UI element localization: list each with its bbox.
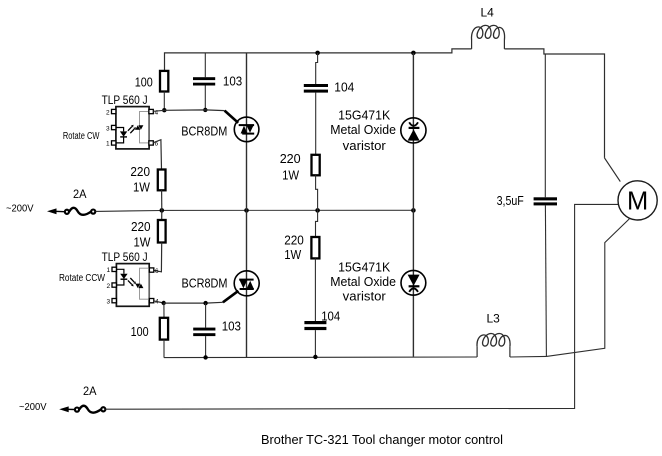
wire mid rail to lower 220 <box>161 210 163 220</box>
motor M1 <box>618 181 657 220</box>
LED inside U2 <box>116 269 124 273</box>
svg-text:TLP 560 J: TLP 560 J <box>102 95 148 107</box>
light arrows inside U2 <box>128 280 132 284</box>
svg-text:3: 3 <box>106 125 110 132</box>
svg-text:2A: 2A <box>73 189 87 201</box>
wire 220 to mid rail <box>161 190 163 210</box>
wire diagonal L3 to motor bottom vertical <box>547 219 630 357</box>
wire bottom component rail <box>164 356 477 359</box>
wire 3,5uF column lower <box>545 205 546 356</box>
capacitor 104 (upper) <box>304 84 328 93</box>
inductor L3 <box>477 334 510 357</box>
svg-text:220: 220 <box>130 164 150 179</box>
pin 6 (U1) <box>149 141 153 145</box>
svg-text:L3: L3 <box>487 312 501 326</box>
svg-text:1W: 1W <box>134 235 152 250</box>
wire 3,5uF column upper <box>544 54 546 197</box>
wire 104 to 220 (upper middle) <box>315 93 317 155</box>
wire U1 pin6 to resistor 220 <box>153 140 161 170</box>
svg-text:Rotate CCW: Rotate CCW <box>59 273 105 284</box>
pin 1 (U2) <box>112 267 116 271</box>
capacitor 103 (upper) <box>193 53 215 110</box>
light arrows inside U1 <box>128 127 132 131</box>
wire gate diagonal to triac Q1 <box>225 111 239 123</box>
wire mid rail <box>162 209 414 211</box>
capacitor 3,5uF <box>534 197 557 205</box>
svg-text:103: 103 <box>223 73 242 88</box>
wire 220 to U2 pin6 <box>153 243 161 272</box>
junction bottom rail x=315.4 <box>313 355 317 359</box>
svg-text:M: M <box>627 187 648 215</box>
svg-text:103: 103 <box>222 319 241 334</box>
wire 104 column upper (top jog) <box>316 53 318 84</box>
wire lower ~200V rail to motor-left vertical <box>106 204 618 409</box>
junction gate node upper x=205.3 <box>203 108 207 112</box>
pin 2 (U2) <box>112 283 116 287</box>
junction gate node lower x=163.7 <box>162 301 166 305</box>
svg-text:L4: L4 <box>481 6 495 20</box>
svg-text:1: 1 <box>106 141 110 148</box>
wire gate node to resistor 100 (lower) <box>163 303 165 318</box>
phototriac inside U2 <box>135 284 140 289</box>
resistor 100 (upper) <box>160 71 168 92</box>
pin 6 (U2) <box>149 268 153 272</box>
svg-text:1W: 1W <box>133 179 151 194</box>
wire 220 to 104 (lower) <box>314 258 316 321</box>
svg-text:~200V: ~200V <box>19 402 47 413</box>
junction on top rail at x=413.4 <box>411 51 416 56</box>
resistor 100 (lower) <box>160 318 168 340</box>
resistor 220 1W (upper middle) <box>312 155 320 176</box>
svg-text:Metal Oxide: Metal Oxide <box>330 122 396 137</box>
pin 2 (U1) <box>112 109 116 113</box>
phototriac inside U1 <box>135 125 140 130</box>
wire triac column lower <box>246 210 248 357</box>
wire gate node upper <box>164 109 224 112</box>
svg-text:220: 220 <box>131 219 151 234</box>
wire diagonal to motor top <box>605 158 621 182</box>
svg-text:220: 220 <box>284 233 304 248</box>
svg-text:3,5uF: 3,5uF <box>497 193 524 208</box>
svg-text:15G471K: 15G471K <box>338 259 391 274</box>
svg-text:3: 3 <box>107 298 111 305</box>
junction on top rail at x=317.6 <box>315 51 320 56</box>
svg-text:varistor: varistor <box>343 138 387 153</box>
junction gate node upper x=164.3 <box>162 108 166 112</box>
svg-text:15G471K: 15G471K <box>338 107 391 122</box>
junction bottom rail x=205.6 <box>203 355 207 359</box>
varistor RV1 15G471K (upper) <box>401 118 426 143</box>
svg-text:Rotate CW: Rotate CW <box>63 131 100 142</box>
capacitor 104 (lower) <box>304 321 326 330</box>
pin 4 (U2) <box>149 299 153 303</box>
optocoupler U2 TLP560J (lower) <box>107 264 160 307</box>
svg-text:220: 220 <box>280 151 301 166</box>
wire gate node lower <box>164 301 223 304</box>
svg-text:~200V: ~200V <box>6 204 34 215</box>
junction gate node lower x=205.6 <box>203 301 207 305</box>
svg-text:1: 1 <box>107 267 111 274</box>
svg-text:104: 104 <box>321 308 340 323</box>
triac BCR8DM (lower) <box>234 271 259 296</box>
svg-text:100: 100 <box>131 324 149 339</box>
wire top rail right of L4 <box>504 49 604 158</box>
wire upper terminal to mid rail <box>96 210 162 213</box>
wire 220 to mid rail (jog) <box>316 175 318 210</box>
svg-text:1W: 1W <box>284 247 302 262</box>
svg-text:1W: 1W <box>282 167 300 182</box>
resistor 220 1W (upper left) <box>158 170 166 191</box>
pin 3 (U1) <box>112 125 116 129</box>
wire mid rail to 220 (lower middle, jog) <box>316 210 318 237</box>
svg-text:varistor: varistor <box>343 288 387 303</box>
junction mid rail x=161.8 <box>160 208 165 213</box>
fuse 2A upper (arrow + squiggle) <box>47 208 95 215</box>
svg-text:Brother TC-321 Tool changer m: Brother TC-321 Tool changer motor contro… <box>261 432 503 447</box>
optocoupler U1 TLP560J (upper) <box>106 107 159 149</box>
pin 3 (U2) <box>112 299 116 303</box>
resistor 220 1W (lower left) <box>158 220 166 243</box>
junction mid rail x=317.6 <box>315 208 320 213</box>
svg-text:BCR8DM: BCR8DM <box>182 275 228 290</box>
junction mid rail x=413.4 <box>411 208 416 213</box>
wire triac column upper <box>246 53 248 210</box>
LED inside U1 <box>116 128 124 132</box>
svg-text:6: 6 <box>155 268 159 275</box>
wire 100 resistor to gate node <box>163 92 165 111</box>
inductor L4 <box>471 25 504 49</box>
wire 104 to bottom rail <box>314 330 316 357</box>
pin 4 (U1) <box>149 109 153 113</box>
wire 100 (lower) to bottom rail <box>163 340 165 358</box>
svg-text:2: 2 <box>107 283 111 290</box>
capacitor 103 (lower) <box>193 303 215 357</box>
varistor RV2 15G471K (lower) <box>401 270 426 295</box>
svg-text:Metal Oxide: Metal Oxide <box>330 274 396 289</box>
svg-text:104: 104 <box>334 80 354 95</box>
pin 1 (U1) <box>112 141 116 145</box>
wire top rail <box>165 49 472 71</box>
wire gate diagonal to triac Q2 <box>223 291 239 303</box>
svg-text:TLP 560 J: TLP 560 J <box>102 252 148 264</box>
resistor 220 1W (lower middle) <box>311 237 319 258</box>
wire U1 pin4 to gate node <box>153 110 164 111</box>
fuse 2A lower (arrow + squiggle) <box>59 406 105 413</box>
wire L3 to cap junction <box>510 355 547 358</box>
svg-text:2A: 2A <box>83 386 97 398</box>
junction mid rail x=246.5 <box>244 208 249 213</box>
triac BCR8DM (upper) <box>234 117 259 142</box>
svg-text:BCR8DM: BCR8DM <box>181 123 227 138</box>
wire U2 pin4 to gate node <box>154 301 164 303</box>
svg-text:100: 100 <box>135 74 153 89</box>
wire varistor column <box>412 53 414 357</box>
svg-text:2: 2 <box>106 109 110 116</box>
